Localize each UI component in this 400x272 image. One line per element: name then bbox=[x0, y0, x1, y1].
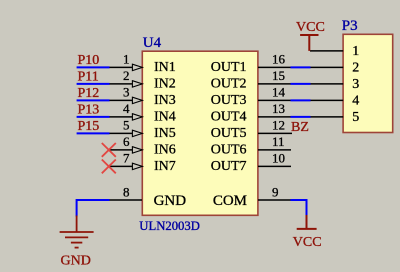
svg-text:OUT2: OUT2 bbox=[211, 77, 247, 92]
svg-text:P11: P11 bbox=[78, 70, 99, 85]
svg-text:5: 5 bbox=[123, 118, 130, 133]
svg-text:1: 1 bbox=[123, 52, 130, 67]
svg-text:12: 12 bbox=[272, 118, 285, 133]
svg-text:COM: COM bbox=[213, 193, 247, 209]
svg-text:4: 4 bbox=[123, 101, 130, 116]
svg-text:1: 1 bbox=[352, 44, 359, 59]
svg-text:OUT5: OUT5 bbox=[211, 126, 247, 141]
svg-text:GND: GND bbox=[61, 253, 91, 268]
svg-text:15: 15 bbox=[272, 68, 285, 83]
svg-text:11: 11 bbox=[272, 134, 285, 149]
svg-text:3: 3 bbox=[123, 85, 130, 100]
svg-text:P15: P15 bbox=[78, 119, 100, 134]
svg-text:IN3: IN3 bbox=[154, 93, 176, 108]
svg-text:P13: P13 bbox=[78, 103, 100, 118]
svg-text:3: 3 bbox=[352, 77, 359, 92]
svg-text:ULN2003D: ULN2003D bbox=[139, 219, 200, 233]
svg-text:P3: P3 bbox=[342, 18, 358, 34]
svg-text:P10: P10 bbox=[78, 53, 100, 68]
svg-text:OUT4: OUT4 bbox=[211, 110, 247, 125]
svg-text:4: 4 bbox=[352, 93, 359, 108]
svg-text:GND: GND bbox=[154, 193, 187, 209]
svg-text:8: 8 bbox=[123, 184, 130, 199]
svg-text:IN2: IN2 bbox=[154, 77, 176, 92]
svg-text:14: 14 bbox=[272, 85, 286, 100]
svg-text:IN5: IN5 bbox=[154, 126, 176, 141]
svg-text:2: 2 bbox=[352, 60, 359, 75]
svg-text:13: 13 bbox=[272, 101, 285, 116]
svg-text:10: 10 bbox=[272, 151, 285, 166]
svg-text:6: 6 bbox=[123, 134, 130, 149]
svg-text:IN6: IN6 bbox=[154, 143, 176, 158]
svg-text:BZ: BZ bbox=[291, 120, 309, 135]
svg-text:P12: P12 bbox=[78, 86, 100, 101]
svg-text:IN1: IN1 bbox=[154, 60, 176, 75]
svg-text:9: 9 bbox=[272, 184, 279, 199]
svg-text:OUT7: OUT7 bbox=[211, 159, 247, 174]
svg-text:5: 5 bbox=[352, 110, 359, 125]
svg-text:OUT6: OUT6 bbox=[211, 143, 247, 158]
svg-text:VCC: VCC bbox=[293, 235, 322, 250]
svg-text:U4: U4 bbox=[143, 35, 162, 51]
svg-text:IN4: IN4 bbox=[154, 110, 176, 125]
svg-text:2: 2 bbox=[123, 68, 130, 83]
svg-text:16: 16 bbox=[272, 52, 286, 67]
svg-text:7: 7 bbox=[123, 151, 130, 166]
svg-text:IN7: IN7 bbox=[154, 159, 176, 174]
svg-text:OUT3: OUT3 bbox=[211, 93, 247, 108]
svg-text:OUT1: OUT1 bbox=[211, 60, 247, 75]
svg-text:VCC: VCC bbox=[296, 20, 325, 35]
